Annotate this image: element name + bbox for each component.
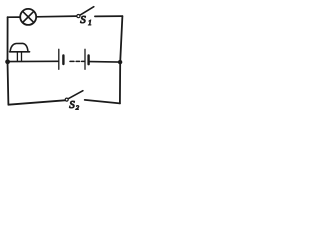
switch S1 blade bbox=[80, 7, 94, 15]
wire right side bbox=[120, 16, 123, 103]
lamp L1 cross bbox=[23, 11, 34, 22]
label S1 bbox=[80, 14, 91, 27]
wire middle left (node to battery) bbox=[8, 60, 58, 62]
wire left side bbox=[7, 17, 10, 105]
switch S2 pivot contact bbox=[65, 98, 68, 101]
bell terminal right bbox=[21, 53, 23, 62]
battery cell 2 positive plate bbox=[84, 49, 86, 69]
battery dashed continuation bbox=[70, 60, 84, 62]
label S2 bbox=[69, 99, 80, 111]
svg-text:1: 1 bbox=[88, 19, 92, 27]
svg-text:S: S bbox=[80, 14, 86, 26]
wire top-left segment bbox=[8, 16, 21, 18]
bell dome bbox=[10, 43, 28, 50]
node junction dot left bbox=[5, 59, 10, 64]
svg-text:S: S bbox=[69, 99, 75, 111]
bell base bbox=[10, 51, 30, 53]
wire bottom-right segment bbox=[85, 100, 120, 104]
switch S1 pivot contact bbox=[77, 15, 80, 18]
lamp L1 circle bbox=[20, 9, 36, 25]
wire S1 to top-right corner bbox=[95, 15, 123, 17]
battery cell 1 positive plate bbox=[58, 49, 60, 69]
battery cell 1 negative plate bbox=[62, 56, 64, 65]
wire lamp to switch S1 bbox=[36, 15, 76, 18]
wire battery to right node bbox=[90, 61, 120, 64]
bell terminal left bbox=[16, 53, 18, 62]
wire bottom-left segment bbox=[8, 100, 65, 104]
battery cell 2 negative plate bbox=[87, 56, 89, 65]
switch S2 blade bbox=[68, 91, 83, 99]
node junction dot right bbox=[118, 60, 122, 64]
svg-text:2: 2 bbox=[76, 105, 80, 112]
